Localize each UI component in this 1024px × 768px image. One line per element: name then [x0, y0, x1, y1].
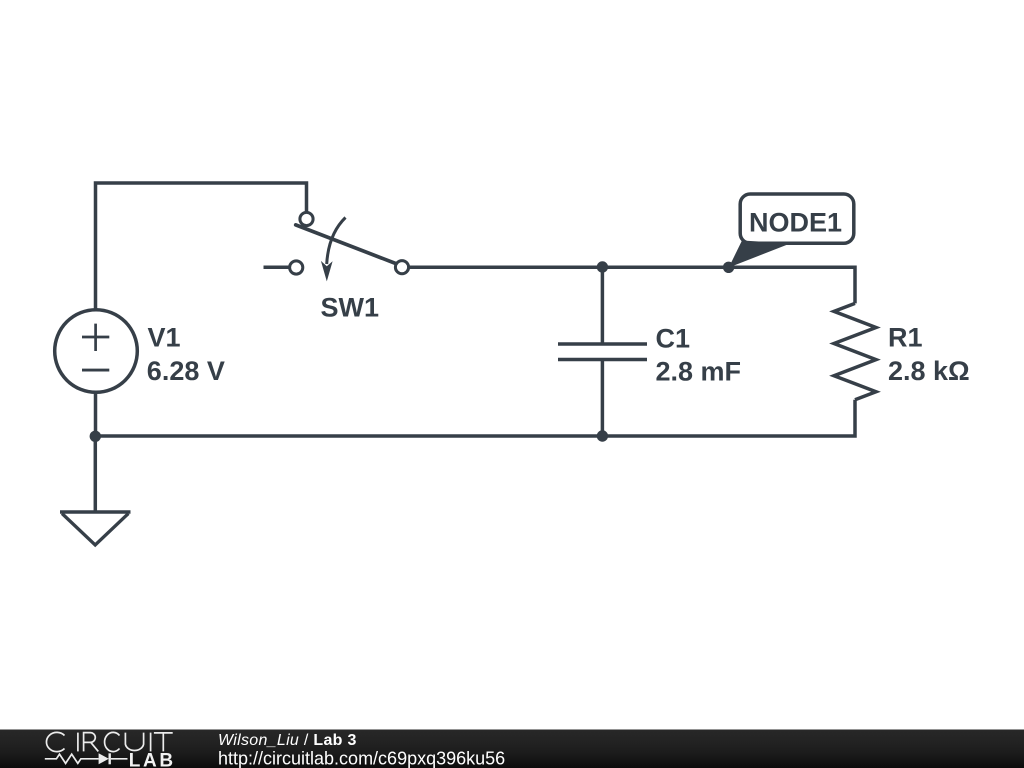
node NODE1 flag — [729, 194, 854, 268]
wire capacitor C1 top lead — [601, 267, 605, 344]
svg-text:NODE1: NODE1 — [749, 208, 842, 238]
svg-text:SW1: SW1 — [321, 292, 380, 322]
svg-text:6.28 V: 6.28 V — [147, 356, 225, 386]
wire ground lead — [94, 436, 98, 512]
wire stub left of SW1 unconnected throw — [264, 266, 290, 270]
svg-text:LAB: LAB — [129, 751, 176, 768]
junction dot at V1 bottom node — [90, 431, 101, 442]
ground — [60, 512, 131, 545]
junction dot at C1 bottom node — [597, 430, 608, 441]
wire from SW1 right terminal to resistor R1 top — [410, 267, 856, 303]
wire V1 bottom lead — [94, 393, 98, 436]
wire bottom rail to resistor R1 bottom — [95, 400, 855, 436]
svg-text:2.8 mF: 2.8 mF — [656, 357, 742, 387]
CircuitLab logo CIRCUIT letters — [46, 732, 172, 751]
CircuitLab logo resistor-diode line — [45, 753, 128, 764]
junction dot at NODE1 — [723, 262, 734, 273]
voltage source V1 — [55, 310, 138, 393]
wire capacitor C1 bottom lead — [601, 360, 605, 437]
svg-text:http://circuitlab.com/c69pxq39: http://circuitlab.com/c69pxq396ku56 — [218, 748, 505, 768]
switch SW1 — [290, 212, 409, 281]
capacitor C1 — [558, 344, 647, 360]
junction dot at C1 top node — [597, 261, 608, 272]
svg-text:2.8 kΩ: 2.8 kΩ — [888, 356, 970, 386]
resistor R1 — [834, 303, 876, 399]
bottom footer bar — [0, 730, 1024, 768]
svg-text:C1: C1 — [656, 323, 691, 353]
svg-text:Wilson_Liu / Lab 3: Wilson_Liu / Lab 3 — [218, 732, 357, 749]
wire top-left from V1 top to switch SW1 top terminal — [96, 183, 307, 310]
svg-text:R1: R1 — [888, 323, 923, 353]
svg-text:V1: V1 — [148, 323, 181, 353]
